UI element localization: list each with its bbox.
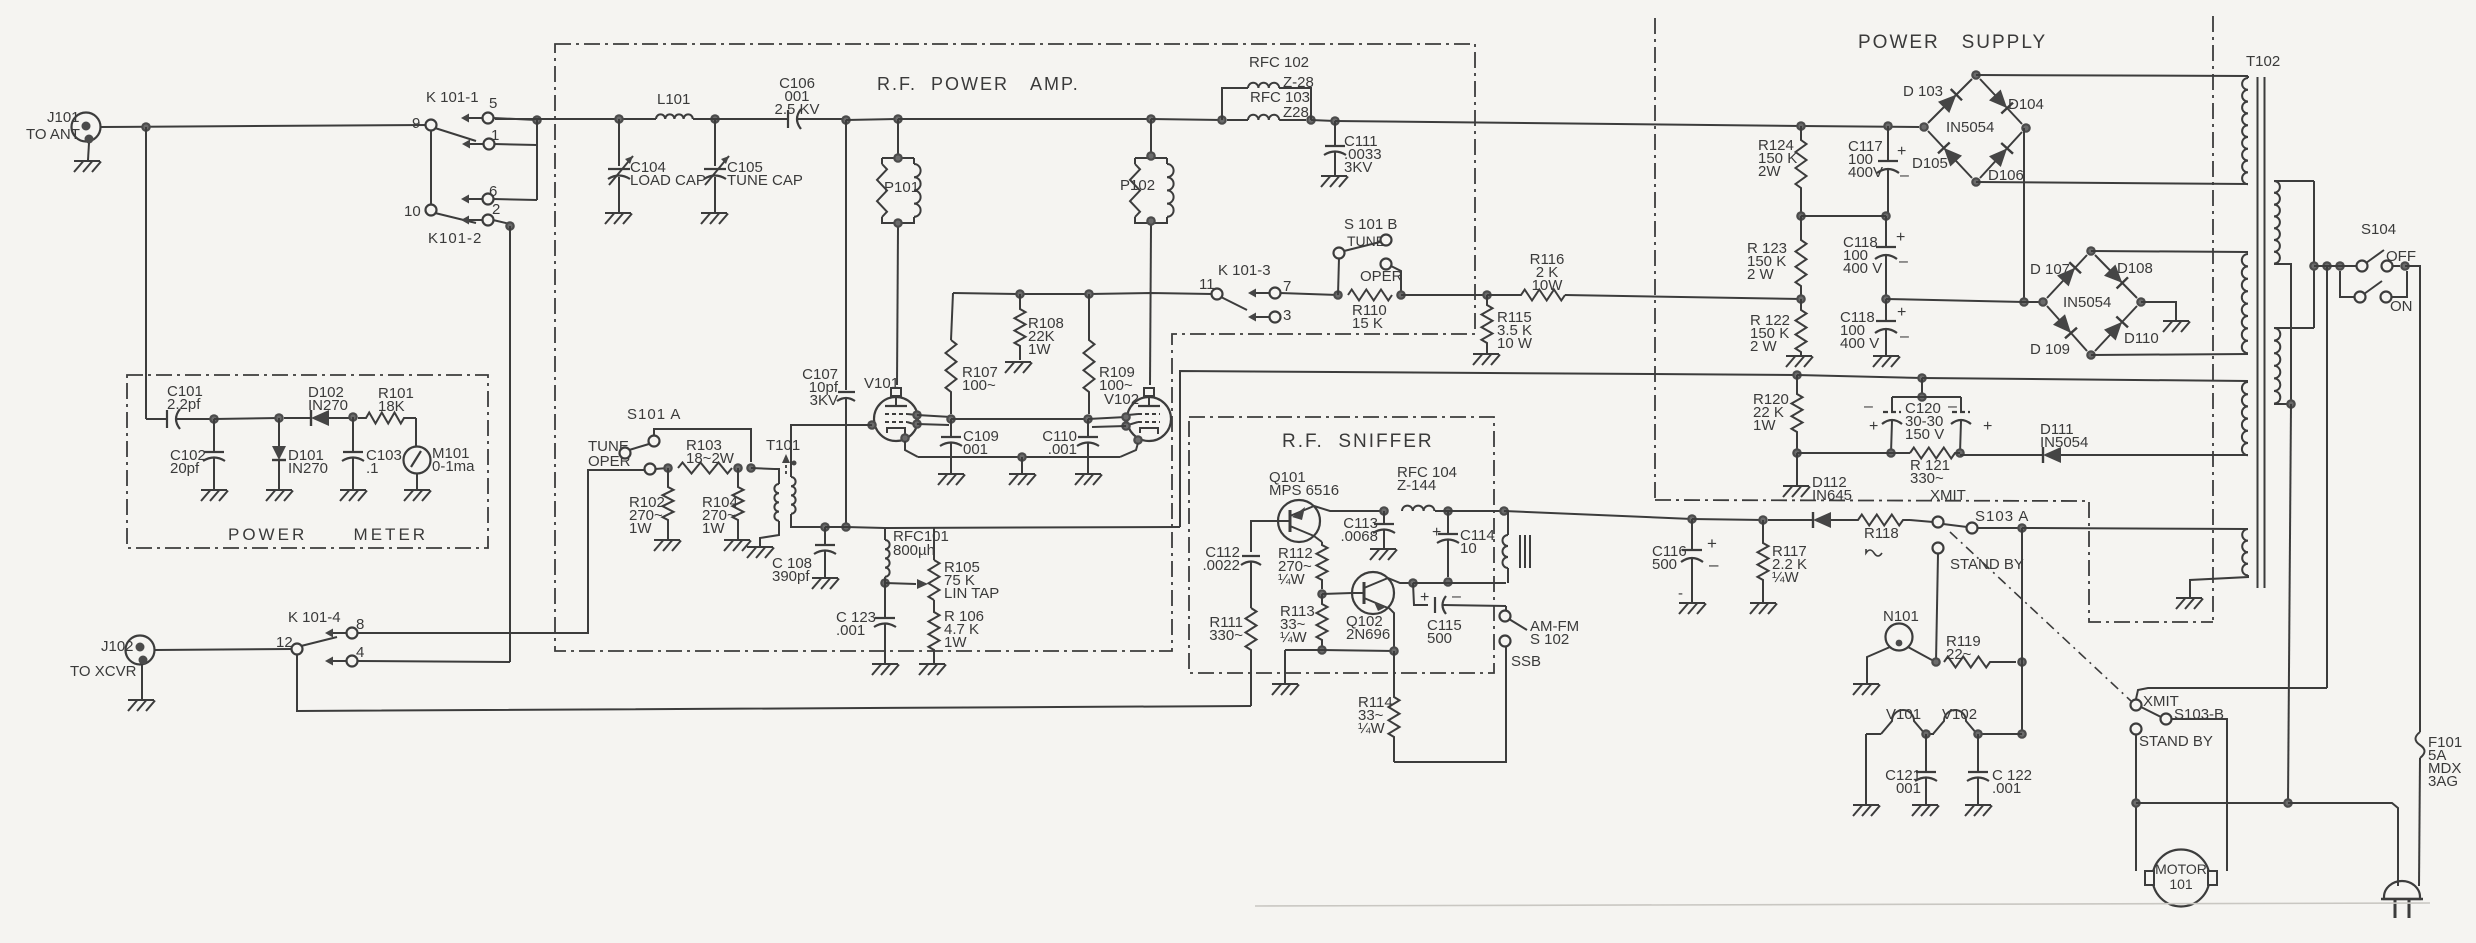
label Z-28 [1283, 74, 1314, 91]
ground below N101 [1853, 684, 1880, 695]
wire C120 riser [1921, 378, 1923, 397]
wire RFC to C111 [1311, 120, 1335, 121]
tube V102 filament [1933, 710, 1977, 734]
label R104 270 1W [702, 494, 738, 537]
svg-text:.0022: .0022 [1202, 557, 1240, 574]
svg-text:¼W: ¼W [1278, 571, 1306, 588]
wire V101 cathode to bus [905, 441, 918, 457]
inductor L101 [656, 114, 693, 119]
switch S104 pole1 left [2357, 261, 2368, 272]
relay K101-2 contact 6 [461, 194, 494, 205]
node filament-primary tie [2286, 399, 2296, 409]
R.F. sniffer enclosure box [1189, 417, 1494, 673]
wire D111 to T102 winding C [2061, 454, 2248, 456]
label STAND BY S103A [1950, 556, 2024, 573]
transformer T102 relay winding [2242, 529, 2248, 575]
wire S104 out to fuse line [2405, 266, 2420, 732]
label R123 150K 2W [1747, 240, 1787, 283]
svg-text:TUNE CAP: TUNE CAP [727, 172, 803, 189]
wire J101 to K101-1 [100, 125, 428, 127]
wire primary bottom lead [2274, 264, 2291, 404]
svg-text:STAND BY: STAND BY [2139, 733, 2213, 750]
node C120 rail [1917, 392, 1927, 402]
ground below C122 [1965, 805, 1992, 816]
wire S103A rail down [2021, 528, 2023, 734]
svg-text:LOAD CAP: LOAD CAP [630, 172, 706, 189]
power meter enclosure box [127, 375, 488, 548]
wire rail to ground [1284, 650, 1286, 684]
capacitor C111 [1324, 121, 1346, 176]
node R119 right [2017, 657, 2027, 667]
capacitor C112 [1241, 556, 1261, 608]
svg-text:330~: 330~ [1209, 627, 1243, 644]
label C112 .0022 [1202, 544, 1240, 574]
label OPER S101A [588, 453, 631, 470]
tube V101 [874, 388, 918, 441]
svg-text:J102: J102 [101, 638, 134, 655]
wire bridge1 bottom to T102 [1976, 182, 2248, 184]
resistor R114 [1389, 651, 1400, 762]
relay K101-4 contact 8 [325, 628, 358, 639]
title R.F. SNIFFER [1282, 431, 1434, 452]
svg-text:10: 10 [404, 203, 421, 220]
node P102 bottom [1146, 216, 1156, 226]
wire C106 to P101 [846, 119, 898, 120]
label pin 3 [1283, 307, 1291, 324]
wire primary top lead [2274, 180, 2314, 182]
node P102 top tap [1146, 114, 1156, 124]
label S101 B [1344, 216, 1397, 233]
transformer T101 secondary [791, 477, 796, 514]
wire winding C bottom [2247, 454, 2249, 456]
label C109 .001 [963, 428, 999, 458]
node RFC102 left [1217, 115, 1227, 125]
title POWER SUPPLY [1858, 32, 2047, 53]
node C101-C102 junction [209, 414, 219, 424]
node V102 pin lower [1121, 421, 1131, 431]
label C117 plus [1897, 143, 1906, 160]
svg-text:–: – [1899, 253, 1908, 270]
capacitor C122 [1967, 734, 1989, 805]
svg-text:K101-2: K101-2 [428, 230, 482, 247]
wire L101 to C106 [693, 118, 715, 120]
svg-text:¼W: ¼W [1358, 720, 1386, 737]
svg-text:+: + [1897, 304, 1906, 321]
label C104 LOAD CAP [630, 159, 706, 189]
svg-text:2: 2 [492, 201, 500, 218]
capacitor C116 [1681, 519, 1703, 603]
svg-text:2 W: 2 W [1750, 338, 1778, 355]
resistor R117 [1758, 520, 1769, 603]
svg-text:10: 10 [1460, 540, 1477, 557]
relay K101-3 contact 3 [1248, 312, 1281, 323]
resistor R121 [1910, 448, 1960, 459]
wire S103B common to motor right [2171, 719, 2227, 871]
switch S103B common [2161, 714, 2172, 725]
node C114 tap [1443, 506, 1453, 516]
label pin 11 [1199, 276, 1215, 293]
svg-text:1W: 1W [629, 520, 652, 537]
svg-text:¼W: ¼W [1280, 629, 1308, 646]
svg-text:3KV: 3KV [810, 392, 838, 409]
label D104 [2008, 96, 2044, 113]
label TO XCVR [70, 663, 137, 680]
wire R101 to M101 [415, 418, 417, 447]
wire bridge2 top to T102 [2091, 251, 2248, 252]
ground below C111 [1321, 176, 1348, 187]
svg-text:TO ANT: TO ANT [26, 126, 80, 143]
label C102 20pf [170, 447, 206, 477]
label Z28 [1283, 104, 1309, 121]
label R118 squiggle [1866, 549, 1882, 556]
wire bridge2 left [2024, 301, 2043, 303]
ground below C108 [812, 578, 839, 589]
label RFC101 800uh [893, 528, 949, 559]
label C116 500 [1652, 543, 1687, 573]
label R110 15K [1352, 302, 1387, 332]
ground below C119 [1873, 356, 1900, 367]
switch S101A contact OPER [645, 464, 656, 475]
node C116 tap [1687, 514, 1697, 524]
node P101 bottom [893, 218, 903, 228]
switch S103B contact STAND BY [2131, 724, 2142, 735]
switch S101B contact OPER [1381, 259, 1392, 270]
capacitor C102 [203, 419, 225, 490]
node R103 left [663, 463, 673, 473]
connector J102 TO XCVR [126, 636, 155, 665]
node S103A out [2017, 523, 2027, 533]
resistor R102 [663, 468, 674, 540]
transformer T102 primary [2274, 181, 2280, 264]
wire cathode bus [918, 456, 1120, 458]
label S103 A [1975, 508, 2029, 525]
relay K101-3 arm [1221, 297, 1247, 310]
capacitor C117 [1877, 126, 1899, 216]
label D109 [2030, 341, 2070, 358]
svg-text:TO XCVR: TO XCVR [70, 663, 137, 680]
resistor R113 [1317, 594, 1328, 649]
label Q101 MPS 6516 [1269, 469, 1339, 499]
wire primary riser [2313, 181, 2315, 328]
label C119 plus [1897, 304, 1906, 321]
wire RFC102 left leg [1222, 88, 1248, 120]
svg-text:IN5054: IN5054 [2040, 434, 2088, 451]
wire contact 5 to junction [493, 118, 537, 120]
svg-text:+: + [1896, 229, 1905, 246]
label C111 .0033 3KV [1344, 133, 1382, 176]
svg-text:R118: R118 [1864, 525, 1899, 542]
node S104 out [2400, 261, 2410, 271]
wire T101 primary top [774, 469, 779, 484]
wire S104 dot row [2314, 265, 2356, 267]
svg-text:P101: P101 [884, 179, 919, 196]
label C115 500 [1427, 617, 1462, 647]
label R106 4.7K 1W [944, 608, 984, 651]
label R101 18K [378, 385, 414, 415]
node V102 cathode [1133, 435, 1143, 445]
wire C114 node to xfmr [1448, 510, 1504, 512]
svg-text:150 V: 150 V [1905, 426, 1944, 443]
label C120 30-30 150V [1905, 400, 1944, 443]
label TUNE S101B [1347, 233, 1385, 249]
wire pole1 out [2392, 265, 2400, 267]
fuse F101 [2416, 732, 2425, 886]
wire bias line to T102 winding C [1922, 378, 2248, 381]
svg-text:15 K: 15 K [1352, 315, 1383, 332]
wire J102 ground lead [141, 664, 143, 700]
wire R103 to T101 [751, 468, 774, 469]
label pin 10 [404, 203, 421, 220]
ground filament rail [1853, 805, 1880, 816]
label C118 100 400V [1843, 234, 1882, 277]
label F101 5A MDX 3AG [2428, 734, 2462, 790]
wire R124 C117 tie [1801, 215, 1886, 217]
transformer T102 core [2258, 77, 2265, 588]
capacitor C110 [1077, 419, 1099, 474]
switch S103B arm [2141, 707, 2161, 717]
svg-text:1W: 1W [1028, 341, 1051, 358]
label R114 33 1/4W [1358, 694, 1393, 737]
suppressor P102 [1130, 119, 1174, 230]
relay K101-2 contact 2 [461, 215, 494, 226]
svg-text:1W: 1W [944, 634, 967, 651]
node R109-C110 junction [1083, 414, 1093, 424]
node bridge2 top [2086, 246, 2096, 256]
diode D107 [2047, 255, 2087, 298]
label pin 6 [489, 183, 497, 200]
resistor R116 [1487, 290, 1565, 301]
ground below R115 [1473, 354, 1500, 365]
ground below C113 [1370, 549, 1397, 560]
wire Q102 base [1322, 593, 1352, 594]
label pin 2 [492, 201, 500, 218]
diode D112 [1768, 512, 1850, 528]
wire R120 node to ground [1796, 453, 1798, 486]
relay K101-4 arm [301, 637, 337, 646]
label C116 minus [1709, 555, 1719, 574]
wire R121 row left [1797, 452, 1910, 454]
label C120 minus right [1948, 398, 1957, 415]
capacitor C118 [1875, 216, 1897, 299]
diode D102 [284, 410, 353, 426]
svg-text:N101: N101 [1883, 608, 1919, 625]
label TUNE S101A [588, 438, 629, 455]
node S104 in a [2309, 261, 2319, 271]
label TO ANT [26, 126, 80, 143]
svg-text:500: 500 [1427, 630, 1452, 647]
label V101 filament [1886, 706, 1921, 723]
wire C111 to power supply [1335, 121, 1801, 126]
svg-text:IN270: IN270 [288, 460, 328, 477]
diode D104 [1980, 79, 2022, 124]
variable capacitor C105 TUNE CAP [704, 119, 729, 213]
label C119 minus [1900, 328, 1909, 345]
svg-text:2W: 2W [1758, 163, 1781, 180]
svg-text:18~2W: 18~2W [686, 450, 735, 467]
node R123-R122 junction [1796, 294, 1806, 304]
wire TUNE contact up-over [654, 429, 751, 462]
svg-text:.001: .001 [1048, 441, 1077, 458]
switch S103B contact XMIT [2131, 700, 2142, 711]
svg-text:390pf: 390pf [772, 568, 810, 585]
svg-text:2 W: 2 W [1747, 266, 1775, 283]
node bridge2 right [2136, 297, 2146, 307]
wire P102 to RFC [1151, 119, 1222, 120]
wire J101 ground lead [88, 143, 89, 160]
label pin 12 [276, 634, 293, 651]
diode D111 [1960, 447, 2061, 463]
wire S103A out to relay winding [2022, 528, 2248, 529]
capacitor C108 [814, 527, 836, 578]
switch S103A common [1967, 523, 1978, 534]
svg-text:1W: 1W [702, 520, 725, 537]
wire filament rail mid [1977, 733, 2022, 735]
wire bridge2 right to ground [2141, 302, 2176, 320]
wire P102 to V102 plate [1150, 226, 1151, 385]
wire bridge1 right down [2023, 128, 2025, 302]
wire T101 secondary bottom [791, 514, 825, 527]
label RFC 103 [1250, 89, 1310, 106]
label V101 [864, 375, 899, 392]
svg-text:J101: J101 [47, 109, 80, 126]
ground at bridge2 [2163, 321, 2190, 332]
label P102 [1120, 177, 1155, 194]
node C104 tap [614, 114, 624, 124]
resistor R120 [1792, 375, 1803, 453]
label R120 22K 1W [1753, 391, 1789, 434]
node junction main line [141, 122, 151, 132]
svg-text:S104: S104 [2361, 221, 2396, 238]
relay K101-4 pivot pin 12 [292, 644, 303, 655]
node motor line left [2131, 798, 2141, 808]
wire winding A top [2247, 76, 2249, 78]
label T102 [2246, 53, 2280, 70]
label K101-1 [426, 89, 479, 106]
wire bias line to C120 [1797, 375, 1922, 378]
node bridge2 bottom [2086, 350, 2096, 360]
label M101 0-1ma [432, 445, 475, 475]
node D102-R101 junction [348, 412, 358, 422]
ground below C110 [1075, 474, 1102, 485]
svg-text:¼W: ¼W [1772, 569, 1800, 586]
node R108 top [1015, 289, 1025, 299]
wire main plate line [495, 118, 656, 120]
capacitor C119 [1875, 299, 1897, 356]
ground at J101 [74, 161, 101, 172]
label D106 [1988, 167, 2024, 184]
label D101 IN270 [288, 447, 328, 477]
wire contact 4 to x510 [357, 661, 510, 662]
label C119 100 400V [1840, 309, 1879, 352]
wire xfmr top lead [1504, 511, 1508, 535]
wire RFC104 to C114 node [1435, 510, 1448, 512]
wire T101 secondary top to V101 grid [791, 425, 872, 477]
node HV mid tap [2019, 297, 2029, 307]
power supply boundary right [2212, 16, 2214, 622]
wire V101 lower pin stub [917, 424, 949, 425]
label J101 [47, 109, 80, 126]
node P102 top [1146, 151, 1156, 161]
label C105 TUNE CAP [727, 159, 803, 189]
svg-text:+: + [1983, 418, 1992, 435]
label R105 75K LIN TAP [944, 559, 999, 602]
svg-text:S101 A: S101 A [627, 406, 681, 423]
relay K101-1 pivot pin 9 [426, 120, 437, 131]
capacitor C114 [1437, 511, 1459, 577]
wire pole2 left leg [2340, 271, 2354, 297]
ground below M101 [404, 490, 431, 501]
label P101 [884, 179, 919, 196]
ground below sniffer rail [1272, 684, 1299, 695]
label C117 100 400V [1848, 138, 1883, 181]
svg-text:MOTOR: MOTOR [2155, 861, 2207, 877]
svg-text:.0068: .0068 [1340, 528, 1378, 545]
resistor R112 [1317, 542, 1328, 589]
svg-text:001: 001 [1896, 780, 1921, 797]
node C111 tap [1330, 116, 1340, 126]
node R120 top [1792, 370, 1802, 380]
node R117 tap [1758, 515, 1768, 525]
capacitor C106 [715, 109, 846, 129]
wire pole2 feed [2326, 266, 2328, 271]
power supply boundary left [1654, 18, 1656, 498]
node R124-R123 junction [1796, 211, 1806, 221]
svg-text:R.F. SNIFFER: R.F. SNIFFER [1282, 431, 1434, 452]
ground below D101 [266, 490, 293, 501]
wire S103B xmit link [2136, 688, 2327, 699]
label XMIT S103B [2143, 693, 2179, 710]
switch S101A contact TUNE [649, 436, 660, 447]
node S104 in b [2322, 261, 2332, 271]
switch S104 pole2 left [2355, 292, 2366, 303]
relay K101-3 contact 7 [1248, 288, 1281, 299]
title POWER METER [228, 525, 428, 544]
svg-text:–: – [1452, 588, 1461, 605]
node S104 in c [2335, 261, 2345, 271]
svg-text:500: 500 [1652, 556, 1677, 573]
node C120 top tap [1917, 373, 1927, 383]
wire C115 feed [1413, 583, 1428, 605]
node R115 tap [1482, 290, 1492, 300]
label D107 [2030, 261, 2070, 278]
ground below C116 [1679, 603, 1706, 614]
capacitor C115 [1435, 596, 1506, 614]
wire R118 to S103A [1910, 520, 1933, 522]
node C107 bottom junction [841, 522, 851, 532]
label S103-B [2174, 706, 2224, 723]
wire filament rail left end [1865, 734, 1867, 805]
label MOTOR 101 [2155, 861, 2207, 892]
diode D103 [1928, 79, 1972, 123]
wire R105 top lead [933, 527, 935, 560]
capacitor C113 [1373, 511, 1395, 549]
ground below C123 [872, 664, 899, 675]
svg-text:Z28: Z28 [1283, 104, 1309, 121]
node main line at x537 [532, 115, 542, 125]
wire contact 6 right [493, 199, 537, 200]
ground below C102 [201, 490, 228, 501]
switch S103A contact STAND BY [1933, 543, 1944, 554]
sniffer transformer core [1520, 535, 1530, 568]
label pin 7 [1283, 278, 1291, 295]
choke RFC102 [1248, 83, 1279, 88]
label R115 3.5K 10W [1497, 309, 1533, 352]
wire junction down to power meter [145, 127, 147, 419]
label D110 [2124, 330, 2159, 347]
node C108 tap [820, 522, 830, 532]
wire J102 to K101-4 [155, 649, 291, 650]
svg-text:D105: D105 [1912, 155, 1948, 172]
